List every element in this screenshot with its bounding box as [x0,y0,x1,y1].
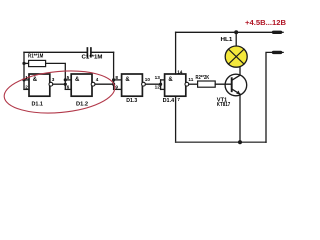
wire R2 right lead / base lead [215,83,232,85]
D1.3 output inversion circle [142,82,146,86]
D1.2 output inversion circle [91,82,95,86]
wire collector lead [232,67,240,80]
node D1.4 input junction [159,83,162,86]
gate D1.1 [29,74,50,96]
capacitor C1 [87,48,91,57]
svg-text:6: 6 [67,85,70,90]
red highlight ellipse around D1.1 D1.2 [2,67,116,118]
transistor base bar [231,78,233,91]
svg-text:11: 11 [188,77,193,82]
svg-text:7: 7 [177,97,180,102]
wire emitter down to ground rail [239,94,241,142]
svg-text:4: 4 [96,77,99,82]
node emitter/ground junction [238,140,242,144]
wire C1 right to corner [92,51,114,53]
wire D1.4 pin 7 down to ground rail [175,96,177,142]
svg-text:D1.3: D1.3 [126,98,138,104]
svg-text:D1.2: D1.2 [76,101,88,107]
svg-text:2: 2 [25,85,28,90]
transistor emitter with arrow [232,89,240,94]
node R1 left lead junction [22,62,25,65]
wire top-left horizontal to C1 [24,51,87,53]
resistor R2 [198,81,216,87]
node C1 return / D1.3 input junction [112,83,115,86]
wire C1 return vertical into D1.3 input bar [113,52,115,89]
svg-text:HL1: HL1 [221,37,234,43]
node R1 feedback / D1.2 input junction [64,83,67,86]
power arrow plus [274,31,281,34]
wire D1.2 input stubs [65,79,71,81]
svg-text:R1**1M: R1**1M [28,53,43,59]
svg-text:12: 12 [155,85,161,90]
svg-text:D1.4: D1.4 [163,98,175,104]
svg-text:9: 9 [115,85,118,90]
svg-text:1: 1 [25,75,28,80]
wire left vertical (D1.1 input bar) [23,52,25,89]
svg-text:&: & [33,77,38,83]
wire R1 right lead [46,63,66,89]
D1.4 output inversion circle [185,82,189,86]
gate D1.2 [71,74,92,96]
svg-text:8: 8 [115,75,118,80]
wire right vertical to minus arrow [266,52,273,142]
resistor R1 [29,60,46,66]
svg-text:&: & [125,77,130,83]
svg-text:&: & [168,77,173,83]
svg-text:14: 14 [177,69,183,74]
node D1.3 pin 8 stub junction [112,78,115,81]
svg-text:&: & [75,77,80,83]
node lamp junction on power rail [234,30,238,34]
svg-text:D1.1: D1.1 [32,101,44,107]
node D1.1 pin 1 stub junction [22,78,25,81]
transistor VT1 circle [225,74,247,96]
wire D1.4 input stubs [161,79,165,81]
wire power rail top [176,31,273,33]
svg-text:5: 5 [67,75,70,80]
wire D1.1 out to D1.2 in [53,83,66,85]
wire D1.1 input stubs [24,79,29,81]
wire R2 left lead [189,83,198,85]
svg-text:13: 13 [155,75,161,80]
svg-text:10: 10 [145,77,151,82]
lamp HL1 [225,46,247,67]
wire D1.3 input stubs [114,79,122,81]
wire D1.4 input bar [160,80,162,90]
D1.1 output inversion circle [49,82,53,86]
wire D1.2 out to D1.3 in [95,83,114,85]
svg-text:+4.5В...12В: +4.5В...12В [245,18,286,27]
power arrow minus [274,51,281,54]
svg-text:R2**2K: R2**2K [196,75,210,81]
wire R1 left lead [24,62,29,64]
wire lamp top lead [235,32,237,46]
svg-text:C1**1M: C1**1M [82,55,103,61]
gate D1.4 [165,74,186,96]
node D1.2 pin 5 stub junction [64,78,67,81]
svg-text:KT817: KT817 [217,102,230,108]
wire D1.4 pin 14 to power rail [175,32,177,74]
svg-text:3: 3 [52,77,55,82]
wire ground rail bottom [176,141,266,143]
wire D1.3 out to D1.4 in [145,83,160,85]
gate D1.3 [122,74,143,96]
